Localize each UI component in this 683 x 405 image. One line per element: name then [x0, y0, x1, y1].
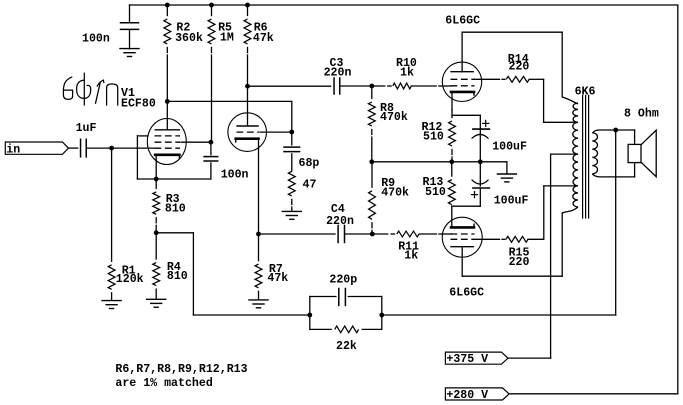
- label 8 Ohm: [624, 107, 659, 120]
- ground for bus: [497, 162, 516, 182]
- svg-text:ECF80: ECF80: [121, 97, 156, 110]
- tube V3 envelope: [442, 62, 481, 101]
- label 100uF lower: [494, 194, 529, 207]
- svg-text:8 Ohm: 8 Ohm: [624, 107, 659, 120]
- label 68p: [299, 157, 320, 170]
- wire speaker bottom lead: [634, 163, 636, 177]
- V1 cathode: [155, 155, 179, 158]
- ground for R7: [249, 300, 268, 308]
- wire feedback to R3R4: [156, 233, 310, 315]
- svg-text:510: 510: [425, 186, 446, 199]
- V3 anode stem: [461, 32, 463, 71]
- wire V2 anode to C3: [248, 85, 331, 87]
- node V2 grid junction: [289, 130, 294, 135]
- resistor R7 47k: [255, 234, 262, 300]
- node feedback right: [379, 313, 384, 318]
- power flag +375 V: [445, 352, 508, 366]
- svg-text:1M: 1M: [220, 31, 234, 44]
- resistor 47: [288, 171, 295, 211]
- V4 cathode: [451, 224, 474, 227]
- node V2 cathode junction: [256, 232, 261, 237]
- V1 g3 dashes: [155, 135, 181, 137]
- ground for R4: [147, 299, 166, 307]
- node secondary feedback: [613, 128, 618, 133]
- V3 cathode lead: [451, 92, 453, 110]
- label R8: [380, 102, 408, 124]
- tube V1 label: [121, 87, 156, 111]
- label R1: [116, 265, 144, 287]
- wire C-in to grid node: [86, 147, 111, 149]
- wire V1 anode to V2 grid: [167, 101, 291, 132]
- label R4: [167, 261, 188, 283]
- resistor R3 810: [153, 179, 160, 233]
- svg-text:220p: 220p: [329, 273, 357, 286]
- node rail-R5: [209, 3, 214, 8]
- resistor R8 470k: [368, 86, 375, 162]
- V3 g1 dashes: [451, 85, 475, 87]
- label 220p: [329, 273, 357, 286]
- V1 cathode lead: [155, 155, 157, 179]
- V1 g2 lead right: [181, 141, 211, 143]
- label R10: [396, 57, 417, 80]
- label R11: [398, 240, 419, 262]
- V1 g2 dashes: [155, 141, 181, 143]
- node rail-R2: [165, 3, 170, 8]
- capacitor 1uF input: [81, 139, 87, 157]
- V2 cathode: [236, 139, 259, 142]
- node C4 R9 R11: [370, 232, 375, 237]
- resistor R10 1k: [372, 83, 452, 89]
- resistor R13 510: [448, 162, 455, 205]
- node bus caps: [478, 159, 483, 164]
- svg-text:in: in: [6, 143, 20, 156]
- wire ground bus: [372, 161, 507, 163]
- svg-text:1k: 1k: [404, 250, 418, 263]
- wire secondary top: [599, 129, 635, 131]
- wire V4 anode to primary bottom: [462, 213, 562, 276]
- svg-text:470k: 470k: [380, 111, 408, 124]
- svg-text:47: 47: [303, 179, 317, 192]
- wire cathode bus y179: [137, 178, 211, 180]
- label R9: [381, 177, 409, 200]
- V2 grid lead right: [260, 131, 292, 133]
- svg-text:100n: 100n: [82, 33, 110, 46]
- label R12: [422, 121, 444, 143]
- svg-text:100uF: 100uF: [492, 141, 527, 154]
- logo 6F1P: [63, 73, 117, 106]
- label R7: [267, 263, 288, 285]
- wire +280V right side drop: [677, 5, 679, 394]
- capacitor 100n screen bypass: [204, 142, 218, 179]
- capacitor C3 220n: [334, 78, 340, 94]
- svg-text:+375 V: +375 V: [446, 353, 488, 366]
- svg-text:6K6: 6K6: [575, 85, 596, 98]
- resistor R4 810: [153, 233, 160, 299]
- svg-text:810: 810: [165, 203, 186, 216]
- V1 g1 dashes: [155, 147, 181, 149]
- label R2: [175, 21, 203, 45]
- note matched resistors: [115, 363, 247, 390]
- V2 anode stem: [247, 86, 249, 126]
- ground for 47: [282, 211, 301, 219]
- resistor R6 47k: [244, 5, 251, 86]
- tube V2 triode envelope: [228, 113, 267, 152]
- wire C3 to R10 node: [340, 85, 372, 87]
- resistor R11 1k: [372, 231, 451, 237]
- label 22k: [336, 340, 357, 353]
- label R14: [508, 53, 530, 74]
- label R6: [253, 21, 274, 45]
- node V2 anode: [245, 84, 250, 89]
- node V1 cathode junction: [154, 177, 159, 182]
- label R13: [423, 176, 446, 199]
- svg-text:360k: 360k: [175, 32, 203, 45]
- label R5: [218, 21, 234, 44]
- transformer core: [583, 95, 589, 218]
- wire secondary bottom: [599, 176, 635, 178]
- capacitor 100n rail bypass: [121, 5, 139, 49]
- resistor 22k feedback: [335, 326, 359, 333]
- V1 anode stem: [166, 101, 168, 129]
- label 1uF: [76, 122, 97, 135]
- V2 cathode lead: [258, 139, 260, 234]
- svg-text:220: 220: [509, 61, 530, 74]
- svg-text:1uF: 1uF: [76, 122, 97, 135]
- svg-text:+280 V: +280 V: [446, 389, 488, 402]
- capacitor 100uF upper: [472, 120, 490, 161]
- svg-text:510: 510: [423, 131, 444, 144]
- node rail-R6: [245, 3, 250, 8]
- resistor R2 360k: [164, 5, 171, 101]
- node R3 R4 feedback junction: [154, 230, 159, 235]
- input connector in: [5, 142, 68, 156]
- node input grid junction: [109, 146, 114, 151]
- tube V4 label 6L6GC: [449, 286, 484, 299]
- svg-text:6L6GC: 6L6GC: [449, 286, 484, 299]
- V2 grid dashes: [237, 131, 260, 133]
- wire speaker top lead: [634, 130, 636, 144]
- svg-text:100uF: 100uF: [494, 194, 529, 207]
- resistor R12 510: [449, 110, 456, 162]
- ground for R1: [102, 301, 121, 309]
- svg-text:220: 220: [509, 256, 530, 269]
- V2 plate: [237, 125, 258, 127]
- node V1 anode: [165, 99, 170, 104]
- svg-text:100n: 100n: [221, 169, 249, 182]
- svg-text:are 1% matched: are 1% matched: [115, 377, 212, 390]
- tube V4 envelope: [442, 217, 482, 257]
- node feedback left: [307, 313, 312, 318]
- feedback network box: [310, 297, 382, 330]
- resistor R5 1M: [208, 5, 215, 142]
- label 100n screen: [221, 169, 249, 182]
- svg-text:1k: 1k: [400, 67, 414, 80]
- label C3: [324, 57, 352, 80]
- V1 plate: [155, 129, 179, 131]
- V4 g1 dashes: [451, 233, 475, 235]
- svg-text:22k: 22k: [336, 340, 357, 353]
- V3 g2 dashes: [451, 78, 475, 80]
- wire +280V feed bottom: [509, 393, 678, 395]
- transformer primary winding: [562, 97, 578, 213]
- node V1 g2: [209, 140, 214, 145]
- label R3: [165, 193, 186, 216]
- svg-text:470k: 470k: [381, 187, 409, 200]
- transformer secondary winding: [592, 130, 598, 177]
- node bus R12R13: [449, 159, 454, 164]
- wire cathode to C-bypass upper: [452, 115, 480, 128]
- V4 plate: [451, 246, 473, 248]
- label 100uF upper: [492, 141, 527, 154]
- label R15: [509, 246, 530, 269]
- resistor R14 220: [475, 76, 544, 82]
- V1 g3 tie to cathode: [137, 136, 148, 179]
- V4 cathode lead: [451, 206, 453, 227]
- V3 cathode: [451, 92, 474, 95]
- node bus R8R9: [369, 159, 374, 164]
- node C3 R8 R10: [369, 84, 374, 89]
- resistor R9 470k: [369, 162, 376, 234]
- wire R13 bottom to C-bypass lower: [452, 205, 481, 207]
- svg-text:47k: 47k: [253, 32, 274, 45]
- wire R14 to UL tap upper: [544, 79, 576, 122]
- power flag +280 V: [445, 388, 509, 402]
- wire V3 anode to primary top: [462, 32, 562, 97]
- svg-text:810: 810: [167, 270, 188, 283]
- V4 anode stem: [461, 247, 463, 277]
- ground for 100n: [120, 49, 139, 57]
- label 47: [303, 179, 317, 192]
- wire C4 to R11 node: [345, 233, 373, 235]
- svg-text:6L6GC: 6L6GC: [445, 15, 480, 28]
- resistor R1 120k: [108, 148, 115, 300]
- capacitor 100uF lower: [472, 162, 490, 206]
- svg-text:68p: 68p: [299, 157, 320, 170]
- label 6K6: [575, 85, 596, 98]
- label 100n: [82, 33, 110, 46]
- wire V2 cathode to C4: [259, 233, 336, 235]
- V3 plate: [451, 71, 473, 73]
- wire grid node to V1 pentode g1: [112, 147, 154, 149]
- wire feedback drop: [382, 130, 616, 315]
- svg-text:47k: 47k: [267, 272, 288, 285]
- speaker 8 Ohm: [628, 130, 656, 177]
- capacitor 220p feedback: [339, 289, 346, 306]
- label C4: [326, 203, 354, 228]
- wire +280V top rail: [130, 4, 678, 6]
- capacitor 68p: [284, 132, 300, 171]
- wire input to C-in: [69, 147, 78, 149]
- wire +375 to center tap: [508, 154, 576, 358]
- capacitor C4 220n: [338, 226, 344, 243]
- svg-text:220n: 220n: [324, 67, 352, 80]
- svg-text:220n: 220n: [326, 215, 354, 228]
- svg-text:R6,R7,R8,R9,R12,R13: R6,R7,R8,R9,R12,R13: [115, 363, 247, 376]
- resistor R15 220: [475, 236, 544, 242]
- svg-text:120k: 120k: [116, 273, 144, 286]
- wire R15 to UL tap lower: [544, 186, 576, 239]
- tube V1 pentode envelope: [147, 119, 186, 165]
- tube V3 label 6L6GC: [445, 15, 480, 28]
- V4 g2 dashes: [451, 238, 475, 240]
